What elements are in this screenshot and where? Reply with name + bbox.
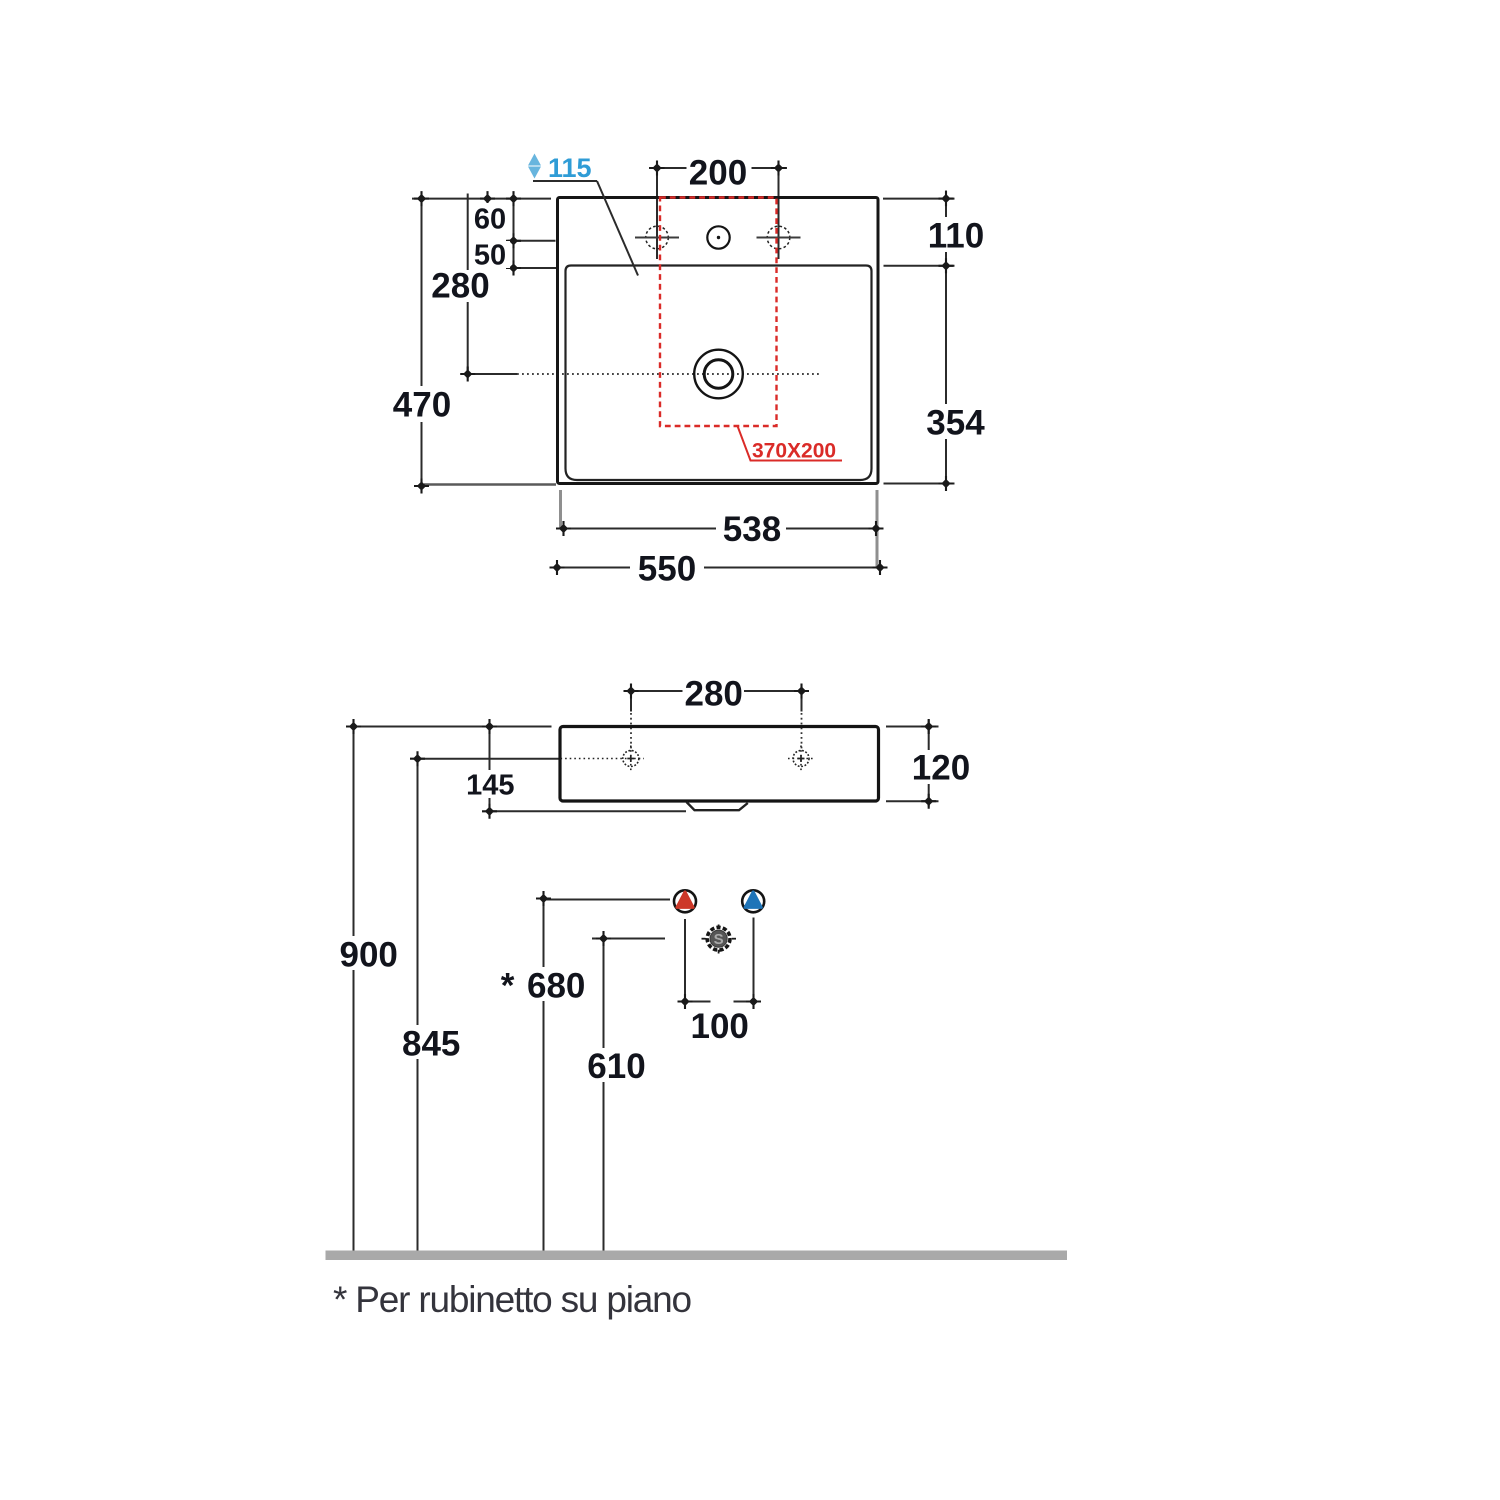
svg-text:280: 280	[684, 675, 742, 714]
svg-text:470: 470	[393, 386, 451, 425]
svg-text:60: 60	[474, 204, 506, 236]
svg-text:900: 900	[339, 936, 397, 975]
svg-text:200: 200	[689, 154, 747, 193]
svg-text:550: 550	[638, 550, 696, 589]
svg-text:538: 538	[723, 510, 781, 549]
svg-text:354: 354	[926, 404, 985, 443]
svg-text:50: 50	[474, 240, 506, 272]
svg-text:100: 100	[690, 1007, 748, 1046]
svg-text:680: 680	[527, 967, 585, 1006]
svg-text:370X200: 370X200	[752, 440, 836, 463]
svg-text:115: 115	[548, 153, 592, 183]
svg-text:610: 610	[587, 1047, 645, 1086]
svg-text:280: 280	[431, 267, 489, 306]
svg-text:*: *	[501, 967, 515, 1006]
svg-text:* Per rubinetto su piano: * Per rubinetto su piano	[333, 1279, 692, 1320]
svg-text:S: S	[714, 931, 724, 948]
svg-text:845: 845	[402, 1025, 460, 1064]
svg-text:110: 110	[928, 217, 984, 256]
svg-text:120: 120	[912, 749, 970, 788]
svg-text:145: 145	[466, 770, 514, 802]
